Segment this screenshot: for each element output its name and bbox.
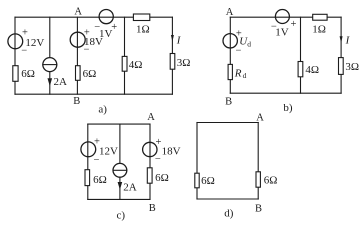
svg-text:d): d) — [224, 207, 234, 219]
svg-text:1Ω: 1Ω — [312, 24, 326, 36]
wire: circuit c 2A branch upper — [119, 124, 121, 163]
svg-text:6Ω: 6Ω — [201, 175, 215, 187]
resistor Rd (circuit b) — [228, 64, 247, 79]
svg-text:d: d — [247, 39, 251, 48]
svg-text:6Ω: 6Ω — [155, 172, 169, 184]
svg-text:1V: 1V — [275, 26, 289, 38]
current arrow I (circuit a) — [171, 35, 182, 47]
svg-text:B: B — [73, 96, 80, 107]
voltage source 12V (circuit a) — [8, 28, 45, 57]
svg-text:I: I — [176, 35, 182, 47]
svg-text:2A: 2A — [123, 182, 137, 194]
wire: circuit a right branch — [171, 17, 173, 94]
wire: circuit b top wire — [230, 16, 341, 18]
svg-text:6Ω: 6Ω — [21, 68, 35, 80]
svg-text:+: + — [291, 19, 297, 30]
current source 2A (circuit c) — [113, 163, 137, 193]
svg-text:4Ω: 4Ω — [305, 64, 319, 76]
resistor 6ohm (circuit d, right) — [256, 172, 277, 187]
current arrow I (circuit b) — [340, 35, 351, 47]
svg-text:6Ω: 6Ω — [264, 174, 278, 186]
resistor 6ohm (circuit c, right) — [147, 168, 168, 184]
svg-text:R: R — [234, 67, 242, 79]
resistor 1ohm (circuit b, on top wire) — [312, 14, 327, 35]
svg-text:18V: 18V — [162, 145, 181, 157]
wire: circuit b 4ohm branch — [300, 17, 302, 93]
voltage source 18V (circuit c) — [143, 137, 181, 165]
wire: circuit a 18V branch — [76, 17, 78, 94]
wire: circuit b right branch — [340, 17, 342, 93]
resistor 4ohm (circuit a) — [122, 56, 142, 71]
svg-text:A: A — [226, 7, 234, 18]
svg-text:6Ω: 6Ω — [93, 174, 107, 186]
wire: circuit b left branch — [229, 17, 231, 93]
wire: circuit c top wire — [88, 123, 150, 125]
svg-text:1V: 1V — [99, 28, 113, 40]
wire: circuit a 4ohm branch — [124, 17, 126, 94]
svg-text:1Ω: 1Ω — [136, 23, 150, 35]
wire: circuit a 2A branch upper — [49, 17, 51, 58]
svg-text:12V: 12V — [25, 37, 44, 49]
wire: circuit d left branch — [196, 123, 198, 200]
wire: circuit c left branch — [87, 124, 89, 199]
svg-text:3Ω: 3Ω — [177, 57, 191, 69]
svg-text:−: − — [155, 154, 161, 165]
svg-text:3Ω: 3Ω — [345, 61, 359, 73]
voltage source 1V (circuit a, on top wire) — [94, 10, 117, 41]
svg-text:d: d — [243, 71, 247, 80]
resistor 1ohm (circuit a, on top wire) — [133, 14, 149, 35]
wire: circuit a top wire — [15, 16, 172, 18]
svg-text:A: A — [256, 112, 264, 123]
svg-text:a): a) — [98, 103, 107, 115]
wire: circuit c 2A branch lower — [119, 177, 121, 199]
svg-text:I: I — [345, 35, 351, 47]
resistor 6ohm (circuit a, mid) — [76, 66, 97, 81]
svg-text:c): c) — [117, 209, 126, 221]
svg-text:2A: 2A — [54, 76, 68, 88]
svg-text:B: B — [149, 203, 156, 214]
resistor 3ohm (circuit a, right) — [170, 54, 190, 70]
wire: circuit d top wire — [197, 122, 258, 124]
voltage source 12V (circuit c) — [81, 136, 118, 166]
wire: circuit d bottom wire — [197, 198, 258, 200]
svg-text:A: A — [147, 112, 155, 123]
svg-text:4Ω: 4Ω — [129, 59, 143, 71]
resistor 4ohm (circuit b) — [298, 62, 319, 77]
wire: circuit c bottom wire — [88, 198, 150, 200]
resistor 6ohm (circuit a, left) — [13, 66, 35, 82]
svg-text:b): b) — [283, 102, 293, 114]
svg-text:12V: 12V — [99, 145, 118, 157]
svg-text:B: B — [225, 97, 232, 108]
wire: circuit a 2A branch lower — [49, 72, 51, 95]
voltage source 1V (circuit b, on top wire) — [271, 10, 297, 39]
voltage source 18V (circuit a) — [70, 27, 103, 55]
wire: circuit b bottom wire — [230, 92, 341, 94]
wire: circuit d right branch — [257, 123, 259, 200]
resistor 6ohm (circuit c, left) — [85, 170, 107, 187]
voltage source Ud (circuit b) — [223, 28, 251, 56]
wire: circuit a bottom wire — [15, 93, 172, 95]
wire: circuit a left branch — [14, 17, 16, 94]
wire: circuit c right branch — [149, 124, 151, 199]
svg-text:6Ω: 6Ω — [83, 68, 97, 80]
resistor 3ohm (circuit b) — [339, 58, 360, 75]
current source 2A (circuit a) — [43, 58, 67, 89]
svg-text:A: A — [74, 7, 82, 18]
svg-text:B: B — [255, 204, 262, 215]
resistor 6ohm (circuit d, left) — [195, 173, 215, 188]
